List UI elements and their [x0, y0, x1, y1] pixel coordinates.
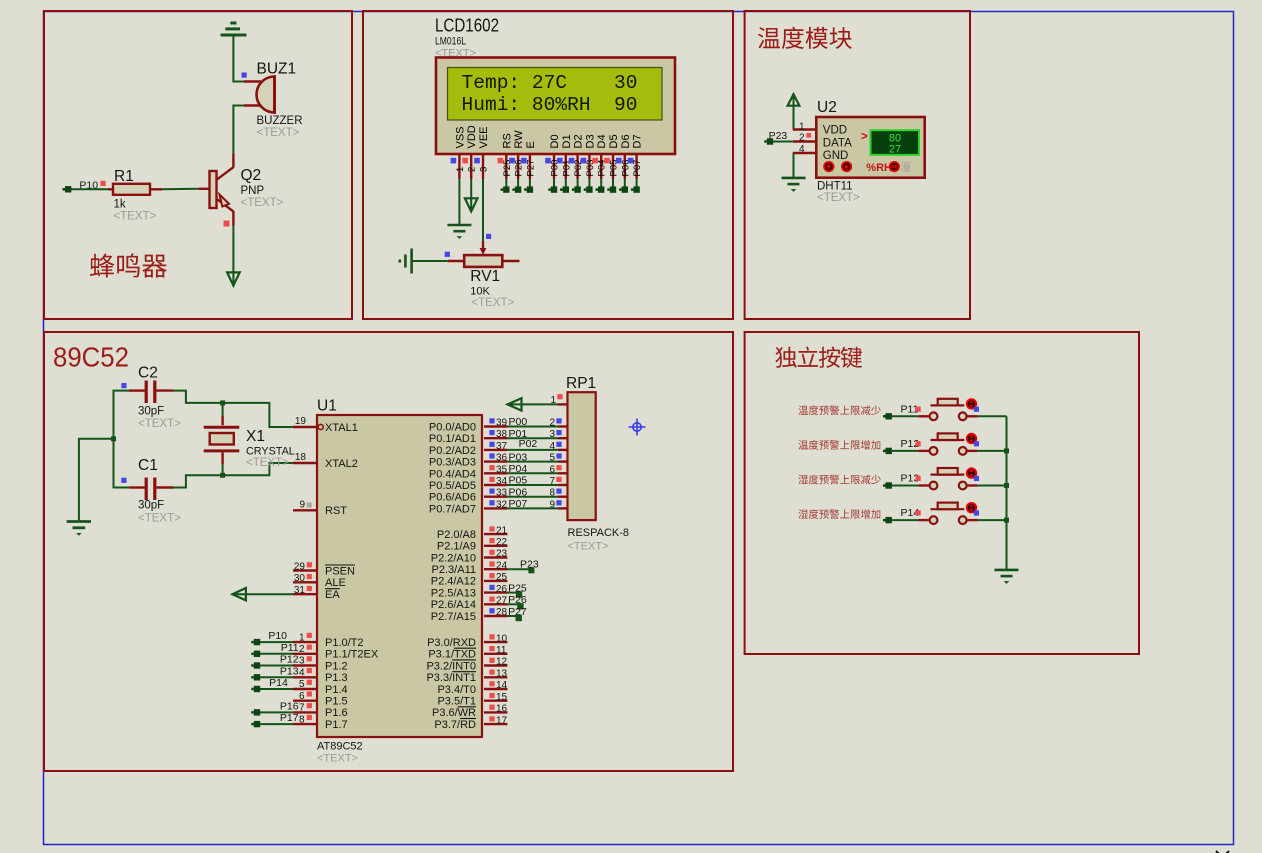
svg-text:X1: X1 [246, 428, 265, 445]
svg-text:P00: P00 [509, 416, 528, 428]
wire P0.6/AD6 to RP1 [507, 496, 558, 498]
pin 25 P2.4/A12 [484, 580, 507, 582]
svg-text:6: 6 [299, 691, 305, 702]
svg-text:Humi: 80%RH 90: Humi: 80%RH 90 [462, 94, 638, 116]
svg-text:GND: GND [823, 150, 849, 162]
svg-text:15: 15 [496, 692, 508, 703]
wire net P10 [260, 641, 293, 643]
svg-text:30: 30 [294, 573, 306, 584]
wire+terminal P27 [529, 179, 531, 187]
pin 12 P3.2 [484, 664, 507, 666]
svg-text:XTAL2: XTAL2 [325, 458, 358, 470]
pin 23 P2.2/A10 [484, 556, 507, 558]
capacitor C1 [129, 486, 145, 488]
push button [930, 482, 938, 490]
pin 16 P3.6 [484, 711, 507, 713]
svg-text:P07: P07 [509, 498, 528, 510]
svg-text:P3.6/WR: P3.6/WR [432, 707, 476, 719]
pin 24 P2.3/A11 [484, 568, 507, 570]
cursor marks bottom right [1216, 851, 1229, 853]
wire to button [892, 519, 918, 521]
svg-text:11: 11 [496, 645, 507, 656]
svg-text:25: 25 [496, 572, 508, 583]
wire C2 right to XTAL1 [174, 391, 293, 427]
svg-text:P04: P04 [509, 463, 528, 475]
pin 31 EA [293, 593, 317, 595]
svg-text:6: 6 [549, 464, 555, 475]
svg-text:2: 2 [799, 132, 805, 143]
blue marker [121, 478, 126, 483]
svg-text:17: 17 [496, 715, 508, 726]
pin 10 P3.0 [484, 641, 507, 643]
svg-text:7: 7 [299, 703, 305, 714]
svg-text:VSS: VSS [454, 126, 466, 148]
svg-text:<TEXT>: <TEXT> [568, 541, 609, 553]
svg-text:P26: P26 [508, 594, 527, 606]
svg-text:P11: P11 [281, 642, 299, 654]
svg-text:RV1: RV1 [470, 268, 500, 285]
wire net P16 [260, 711, 293, 713]
svg-text:1: 1 [799, 122, 805, 133]
wire net P12 [260, 665, 293, 667]
pin 6 P1.5 [293, 700, 317, 702]
svg-text:P07: P07 [632, 160, 643, 177]
pin 14 P3.4 [484, 688, 507, 690]
DHT11 U2 body [816, 117, 924, 178]
wire net P17 [260, 723, 293, 725]
svg-text:P12: P12 [280, 654, 299, 666]
svg-text:28: 28 [496, 607, 508, 618]
svg-text:C2: C2 [138, 365, 158, 382]
svg-text:RW: RW [513, 130, 525, 149]
net P23 wire [507, 568, 531, 570]
svg-text:4: 4 [799, 144, 805, 155]
svg-text:P2.6/A14: P2.6/A14 [431, 599, 476, 611]
capacitor C2 [129, 389, 145, 391]
svg-text:P0.4/AD4: P0.4/AD4 [429, 468, 476, 480]
title 蜂鸣器 [90, 253, 167, 277]
pin 2 P1.1/T2EX [293, 653, 317, 655]
ground [782, 177, 806, 180]
svg-text:VDD: VDD [466, 125, 478, 148]
wire R1 to base [162, 188, 198, 191]
svg-text:21: 21 [496, 525, 508, 536]
terminal P12 [886, 448, 892, 454]
svg-text:P25: P25 [508, 582, 527, 594]
actuator (red) [966, 502, 977, 513]
terminal P13 [886, 482, 892, 488]
title 独立按键 [775, 347, 862, 368]
svg-text:P3.4/T0: P3.4/T0 [437, 684, 476, 696]
svg-text:RS: RS [501, 133, 513, 148]
pin 1 P1.0/T2 [293, 641, 317, 643]
wire+terminal P02 [577, 179, 579, 187]
blue marker [121, 383, 126, 388]
ground arrow (hollow) [227, 272, 240, 285]
net P26 wire [507, 603, 520, 605]
svg-text:P0.6/AD6: P0.6/AD6 [429, 492, 476, 504]
svg-text:29: 29 [294, 561, 306, 572]
svg-text:<TEXT>: <TEXT> [471, 297, 514, 309]
svg-text:8: 8 [299, 714, 305, 725]
resistor pack RP1 [568, 392, 596, 520]
title 温度模块 [758, 27, 852, 49]
svg-text:24: 24 [496, 560, 508, 571]
wire to button [892, 415, 918, 417]
svg-text:27: 27 [496, 596, 508, 607]
svg-text:P0.5/AD5: P0.5/AD5 [429, 480, 476, 492]
svg-text:P27: P27 [508, 606, 527, 618]
push button [930, 412, 938, 420]
svg-text:AT89C52: AT89C52 [317, 741, 363, 753]
wire buzzer to collector [233, 106, 244, 154]
svg-text:RP1: RP1 [566, 375, 596, 392]
button increase (red) [841, 161, 852, 172]
svg-text:P3.0/RXD: P3.0/RXD [427, 637, 476, 649]
ground [67, 522, 91, 528]
svg-text:LCD1602: LCD1602 [435, 15, 499, 36]
svg-text:33: 33 [496, 488, 508, 499]
svg-text:P2.0/A8: P2.0/A8 [437, 529, 476, 541]
RV1 left wire + ground [448, 260, 465, 262]
svg-text:P02: P02 [519, 438, 538, 450]
svg-text:P3.2/INT0: P3.2/INT0 [426, 660, 476, 672]
wire+terminal P03 [588, 179, 590, 187]
svg-text:1: 1 [299, 632, 305, 643]
wire P0.4/AD4 to RP1 [507, 472, 558, 474]
pin 19 XTAL1 [293, 426, 317, 428]
svg-text:CRYSTAL: CRYSTAL [246, 446, 295, 458]
svg-text:<TEXT>: <TEXT> [138, 513, 181, 525]
svg-text:Q2: Q2 [241, 167, 262, 184]
svg-text:P1.0/T2: P1.0/T2 [325, 637, 364, 649]
actuator (red) [966, 433, 977, 444]
svg-text:10K: 10K [470, 286, 490, 298]
buzzer pin stubs [244, 80, 261, 82]
svg-text:26: 26 [496, 584, 508, 595]
svg-text:C1: C1 [138, 457, 158, 474]
bus wire [1006, 416, 1008, 570]
pin 28 P2.7/A15 [484, 615, 507, 617]
svg-text:D4: D4 [596, 134, 608, 148]
module box: 温度模块 [745, 11, 970, 319]
pin 39 P0.0/AD0 [484, 425, 507, 427]
wire+terminal P07 [636, 179, 638, 187]
wire P0.3/AD3 to RP1 [507, 461, 558, 463]
potentiometer RV1 [464, 255, 502, 267]
svg-text:P3.3/INT1: P3.3/INT1 [426, 672, 476, 684]
svg-text:9: 9 [299, 500, 305, 511]
pin 9 RST [293, 509, 317, 511]
svg-text:3: 3 [299, 656, 305, 667]
svg-text:P2.4/A12: P2.4/A12 [431, 576, 476, 588]
svg-text:P14: P14 [269, 677, 288, 689]
wire to button [892, 485, 918, 487]
svg-text:P0.2/AD2: P0.2/AD2 [429, 445, 476, 457]
wire to bus [967, 484, 978, 486]
svg-text:>: > [861, 131, 868, 143]
svg-text:<TEXT>: <TEXT> [138, 418, 181, 430]
wire P0.1/AD1 to RP1 [507, 437, 558, 439]
svg-text:P1.4: P1.4 [325, 684, 348, 696]
pin 32 P0.7/AD7 [484, 507, 507, 509]
svg-text:P17: P17 [280, 712, 299, 724]
VDD wire [470, 179, 472, 212]
svg-text:D2: D2 [573, 134, 585, 148]
svg-text:1k: 1k [114, 199, 126, 211]
svg-text:U1: U1 [317, 398, 337, 415]
svg-text:R1: R1 [114, 168, 134, 185]
LCD body LM016L [436, 58, 675, 155]
pin 38 P0.1/AD1 [484, 437, 507, 439]
wire to bus [967, 450, 978, 452]
RV1 right wire [502, 260, 519, 262]
actuator (red) [966, 398, 977, 409]
pin 8 P1.7 [293, 723, 317, 725]
U1 AT89C52 body [317, 415, 482, 737]
pin 36 P0.3/AD3 [484, 460, 507, 462]
pin 30 ALE [293, 581, 317, 583]
pin 27 P2.6/A14 [484, 603, 507, 605]
svg-text:37: 37 [496, 441, 508, 452]
blue marker [974, 407, 979, 412]
svg-text:P3.7/RD: P3.7/RD [434, 719, 476, 731]
label 温度预警上限增加 [798, 440, 880, 450]
wire P23 to DATA [773, 141, 793, 143]
junction [1004, 483, 1009, 488]
wire P0.5/AD5 to RP1 [507, 484, 558, 486]
wire net P11 [260, 653, 293, 655]
module box: LCD1602 [363, 11, 733, 319]
svg-text:P1.2: P1.2 [325, 660, 348, 672]
svg-text:P2.7/A15: P2.7/A15 [431, 611, 476, 623]
svg-text:P1.5: P1.5 [325, 696, 348, 708]
svg-text:P1.3: P1.3 [325, 672, 348, 684]
pin 37 P0.2/AD2 [484, 449, 507, 451]
push button [930, 447, 938, 455]
wire P10 to R1 [71, 188, 108, 190]
svg-text:E: E [525, 141, 537, 148]
svg-text:<TEXT>: <TEXT> [114, 211, 157, 223]
svg-text:36: 36 [496, 453, 508, 464]
pin 22 P2.1/A9 [484, 545, 507, 547]
svg-text:P06: P06 [509, 486, 528, 498]
svg-text:RST: RST [325, 505, 347, 517]
svg-text:D3: D3 [584, 134, 596, 148]
svg-text:RESPACK-8: RESPACK-8 [568, 527, 630, 539]
svg-text:13: 13 [496, 668, 508, 679]
svg-text:P2.1/A9: P2.1/A9 [437, 541, 476, 553]
svg-text:89C52: 89C52 [53, 341, 129, 372]
svg-text:BUZ1: BUZ1 [257, 61, 297, 78]
ground (rotated left) [400, 249, 412, 274]
svg-text:31: 31 [294, 585, 306, 596]
transistor Q2 (PNP) [217, 167, 234, 180]
pin 35 P0.4/AD4 [484, 472, 507, 474]
svg-text:P16: P16 [280, 701, 299, 713]
pin 13 P3.3 [484, 676, 507, 678]
svg-text:P0.3/AD3: P0.3/AD3 [429, 457, 476, 469]
svg-text:D5: D5 [608, 134, 620, 148]
wire to bus [967, 415, 978, 417]
button decrease (red) [823, 161, 834, 172]
junction [220, 400, 225, 405]
ground [995, 569, 1019, 572]
svg-text:3: 3 [479, 167, 490, 172]
svg-text:22: 22 [496, 537, 508, 548]
label 温度预警上限减少 [798, 405, 880, 415]
pin 5 P1.4 [293, 688, 317, 690]
pin 21 P2.0/A8 [484, 533, 507, 535]
VEE wire to RV1 wiper [482, 179, 484, 241]
svg-text:LM016L: LM016L [435, 36, 466, 48]
pin 34 P0.5/AD5 [484, 484, 507, 486]
svg-text:4: 4 [549, 441, 555, 452]
svg-text:P1.1/T2EX: P1.1/T2EX [325, 649, 379, 661]
grey 溼 glyph [901, 162, 911, 171]
pin 17 P3.7 [484, 723, 507, 725]
svg-text:2: 2 [467, 167, 478, 172]
wire P0.2/AD2 to RP1 [507, 449, 558, 451]
svg-text:VDD: VDD [823, 125, 847, 137]
net P25 wire [507, 592, 519, 594]
terminal P11 [886, 413, 892, 419]
wire+terminal P00 [553, 179, 555, 187]
svg-text:39: 39 [496, 418, 508, 429]
svg-text:P05: P05 [509, 475, 528, 487]
wire power to VDD [793, 93, 795, 130]
RP1 pin 1 + power arrow [558, 403, 568, 405]
EA wire + power arrow [233, 593, 293, 595]
svg-text:38: 38 [496, 429, 508, 440]
svg-text:30pF: 30pF [138, 406, 164, 418]
svg-text:P23: P23 [520, 558, 539, 570]
svg-text:16: 16 [496, 704, 508, 715]
svg-text:PSEN: PSEN [325, 565, 355, 577]
svg-text:5: 5 [299, 679, 305, 690]
module box: 蜂鸣器 buzzer [44, 11, 352, 319]
pin 7 P1.6 [293, 711, 317, 713]
svg-text:27: 27 [889, 144, 901, 156]
svg-text:P13: P13 [280, 665, 299, 677]
blue marker [445, 252, 450, 257]
svg-text:<TEXT>: <TEXT> [317, 753, 358, 765]
svg-text:DATA: DATA [823, 137, 852, 149]
blue marker [974, 441, 979, 446]
junction [220, 473, 225, 478]
svg-text:8: 8 [549, 488, 555, 499]
LCD screen [448, 68, 663, 121]
svg-text:12: 12 [496, 657, 508, 668]
svg-text:1: 1 [550, 395, 556, 406]
actuator (red) [966, 467, 977, 478]
svg-text:D1: D1 [561, 134, 573, 148]
ground (VSS) [447, 224, 471, 227]
junction [1004, 518, 1009, 523]
terminal P10 [65, 186, 71, 192]
svg-text:2: 2 [549, 418, 555, 429]
wire power to buzzer [233, 36, 244, 82]
pin 4 P1.3 [293, 676, 317, 678]
cursor crosshair [629, 419, 646, 436]
wire C1 right to XTAL2 [174, 463, 293, 488]
blue marker [974, 510, 979, 515]
DHT display [871, 130, 920, 155]
XTAL1 pin circle [318, 424, 323, 429]
label 湿度预警上限增加 [798, 509, 880, 519]
svg-text:14: 14 [496, 680, 508, 691]
svg-text:P0.0/AD0: P0.0/AD0 [429, 422, 476, 434]
resistor R1 [108, 188, 113, 190]
svg-text:P2.2/A10: P2.2/A10 [431, 552, 476, 564]
svg-text:BUZZER: BUZZER [257, 115, 303, 127]
svg-text:U2: U2 [817, 99, 837, 116]
svg-text:%RH: %RH [866, 162, 892, 174]
svg-text:P2.3/A11: P2.3/A11 [432, 564, 476, 576]
svg-text:DHT11: DHT11 [817, 181, 853, 193]
power symbol (top) [221, 23, 247, 35]
svg-text:VEE: VEE [478, 126, 490, 148]
svg-text:9: 9 [549, 499, 555, 510]
wire+terminal P26 [517, 179, 519, 187]
wire to bus [967, 519, 978, 521]
pin 15 P3.5 [484, 700, 507, 702]
junction [1004, 448, 1009, 453]
svg-text:P0.7/AD7: P0.7/AD7 [429, 503, 476, 515]
svg-text:<TEXT>: <TEXT> [241, 197, 284, 209]
wire+terminal P01 [565, 179, 567, 187]
pin 18 XTAL2 [293, 462, 317, 464]
blue marker [486, 234, 491, 239]
svg-text:P1.7: P1.7 [325, 719, 348, 731]
svg-text:D0: D0 [549, 134, 561, 148]
svg-text:P27: P27 [525, 160, 536, 177]
button mode (red) [889, 161, 900, 172]
net P27 wire [507, 615, 518, 617]
pin 26 P2.5/A13 [484, 591, 507, 593]
junction [111, 436, 116, 441]
svg-text:2: 2 [299, 644, 305, 655]
svg-text:EA: EA [325, 589, 340, 601]
svg-text:34: 34 [496, 476, 508, 487]
wire P0.7/AD7 to RP1 [507, 507, 558, 509]
svg-text:P3.1/TXD: P3.1/TXD [428, 649, 476, 661]
pin 4 (GND) [793, 152, 817, 154]
svg-text:32: 32 [496, 499, 508, 510]
pin 1 (VDD) [793, 128, 817, 130]
wire to button [892, 450, 918, 452]
emitter arrow (points into base) [220, 195, 230, 207]
module box: 独立按键 [745, 332, 1139, 654]
svg-text:D6: D6 [620, 134, 632, 148]
svg-text:19: 19 [295, 416, 307, 427]
svg-text:35: 35 [496, 464, 508, 475]
wire+terminal P04 [600, 179, 602, 187]
svg-text:<TEXT>: <TEXT> [246, 457, 289, 469]
svg-text:10: 10 [496, 633, 508, 644]
svg-text:5: 5 [549, 453, 555, 464]
svg-text:P23: P23 [769, 130, 788, 142]
pin 33 P0.6/AD6 [484, 496, 507, 498]
push button [930, 516, 938, 524]
svg-text:D7: D7 [632, 134, 644, 148]
svg-text:P10: P10 [268, 630, 287, 642]
wire+terminal P25 [505, 179, 507, 187]
svg-text:4: 4 [299, 667, 305, 678]
svg-text:<TEXT>: <TEXT> [257, 127, 300, 139]
blue marker [242, 73, 247, 78]
wire P0.0/AD0 to RP1 [507, 426, 558, 428]
